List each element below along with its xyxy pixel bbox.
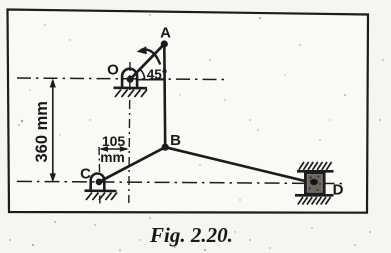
link BC (99, 147, 165, 182)
slider D (295, 162, 334, 205)
vertical center line through C (98, 147, 101, 204)
hatching above top rail (299, 162, 332, 170)
svg-text:A: A (160, 25, 171, 42)
point A (161, 40, 168, 47)
svg-text:O: O (107, 62, 119, 79)
svg-text:D: D (333, 182, 344, 199)
guide top rail (297, 170, 334, 173)
dimension 360 mm (50, 78, 56, 182)
svg-text:C: C (80, 166, 91, 183)
guide bottom rail (295, 194, 334, 197)
rotation arrow (141, 49, 161, 64)
link BD (165, 147, 314, 183)
svg-text:105: 105 (102, 133, 126, 149)
dimension 105 mm (99, 146, 129, 152)
svg-text:360 mm: 360 mm (33, 101, 51, 162)
vertical center line through O (129, 62, 130, 203)
horizontal center line through C and D (17, 181, 346, 183)
link AB (163, 44, 166, 147)
angle arc 45 (140, 70, 144, 80)
slider block (305, 173, 324, 195)
hatching below bottom rail (298, 197, 331, 205)
svg-text:B: B (170, 132, 181, 149)
horizontal center line through O (17, 78, 224, 80)
crank OA (130, 44, 164, 79)
pivot O (114, 69, 148, 97)
pivot C (85, 174, 118, 201)
node B (162, 144, 169, 151)
svg-text:Fig. 2.20.: Fig. 2.20. (149, 223, 233, 247)
horizontal reference line at O (138, 79, 165, 81)
svg-text:mm: mm (100, 150, 125, 165)
